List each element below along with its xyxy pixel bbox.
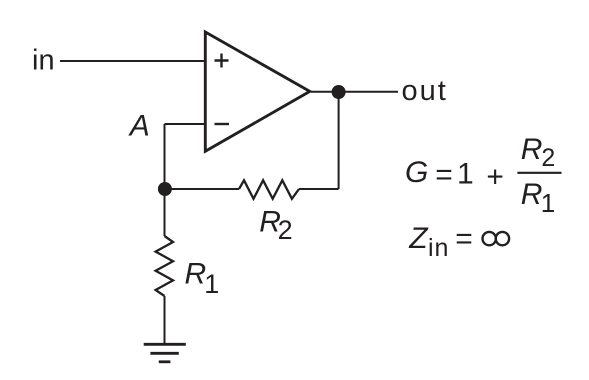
svg-text:R: R	[185, 257, 207, 290]
op-amp - pin marker	[215, 123, 230, 125]
label R1	[185, 257, 220, 299]
junction node A	[158, 182, 172, 196]
node A label	[128, 110, 150, 143]
svg-text:in: in	[428, 234, 449, 262]
wire R1 to ground	[164, 296, 166, 344]
resistor R2	[239, 180, 299, 199]
svg-text:1: 1	[204, 269, 219, 299]
infinity symbol	[483, 232, 510, 245]
junction output node	[332, 85, 346, 99]
equation Zin = infinity	[408, 222, 473, 262]
resistor R1	[156, 236, 173, 296]
label "out"	[402, 75, 448, 107]
svg-text:=: =	[435, 159, 453, 192]
svg-text:=: =	[455, 222, 473, 255]
wire output	[311, 91, 398, 93]
svg-text:R: R	[521, 178, 543, 211]
wire node A vertical	[164, 124, 166, 189]
svg-text:2: 2	[278, 215, 293, 245]
svg-text:R: R	[521, 133, 543, 166]
wire node A to R1	[164, 189, 166, 236]
wire node A to R2	[165, 188, 240, 190]
label R2	[259, 205, 292, 245]
op-amp + pin marker	[215, 54, 229, 68]
svg-text:+: +	[486, 161, 504, 194]
svg-text:G: G	[405, 156, 428, 189]
svg-text:A: A	[128, 110, 150, 143]
wire R2 to feedback riser	[299, 188, 339, 190]
wire input to op-amp +	[60, 60, 206, 62]
equation G = 1 + R2/R1	[405, 133, 555, 218]
svg-text:1: 1	[457, 158, 474, 191]
wire feedback riser	[338, 92, 340, 189]
svg-text:Z: Z	[408, 222, 429, 255]
wire inverting input	[165, 123, 207, 125]
fraction bar R2/R1	[517, 172, 561, 174]
ground	[144, 344, 186, 362]
svg-text:in: in	[32, 45, 55, 77]
svg-text:1: 1	[541, 188, 555, 218]
svg-text:2: 2	[541, 144, 555, 172]
op-amp U1	[205, 32, 309, 151]
svg-text:out: out	[402, 75, 448, 107]
label "in"	[32, 45, 55, 77]
